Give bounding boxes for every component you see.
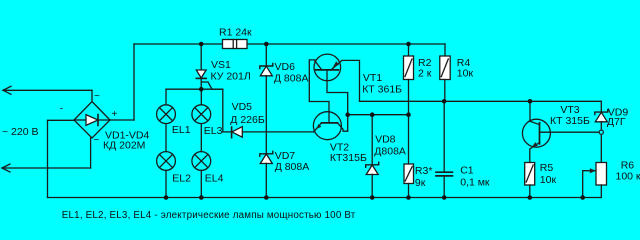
wire: bottom input line <box>2 167 91 169</box>
VD6 bar with hooks <box>260 64 273 69</box>
svg-text:+: + <box>112 109 118 120</box>
svg-text:C1: C1 <box>460 165 474 177</box>
svg-text:-: - <box>60 104 63 115</box>
transistor VT2 <box>313 112 341 140</box>
svg-text:0,1 мк: 0,1 мк <box>460 177 490 189</box>
resistor R5 <box>525 163 535 186</box>
wire: bridge minus to left vertical <box>48 119 75 121</box>
wire: EL3 column <box>200 89 202 105</box>
VD7 bar with hooks <box>260 151 273 156</box>
VD8 bar with hooks <box>366 162 379 167</box>
svg-text:VD8: VD8 <box>375 134 396 146</box>
svg-text:R1 24к: R1 24к <box>219 27 252 39</box>
resistor R2 <box>408 44 410 56</box>
svg-text:EL1, EL2, EL3, EL4 - электриче: EL1, EL2, EL3, EL4 - электрические лампы… <box>62 210 356 221</box>
svg-text:КТ315Б: КТ315Б <box>330 152 367 164</box>
svg-text:EL2: EL2 <box>172 172 191 184</box>
svg-text:100 к: 100 к <box>616 170 640 182</box>
VS1 gate wire <box>202 82 223 132</box>
svg-text:VT1: VT1 <box>363 72 382 84</box>
VS1 cathode bar <box>196 77 206 79</box>
VT1 collector diagonal and path to VT2 base <box>309 60 329 123</box>
svg-text:R3*: R3* <box>415 165 433 177</box>
wire: top rail left of R1 <box>134 43 223 45</box>
VT2 emitter arrow <box>317 124 322 129</box>
zener VD9 triangle <box>595 112 607 122</box>
wire: VD9 column from top wire <box>600 101 602 112</box>
wire: net y=114.7 <box>348 114 409 116</box>
svg-text:2 к: 2 к <box>418 67 432 79</box>
VD9 bar with hooks <box>595 110 608 115</box>
wire: stub to bridge top <box>91 90 93 101</box>
zener VD7 triangle <box>260 154 272 164</box>
svg-text:КТ 361Б: КТ 361Б <box>362 84 402 96</box>
bridge diode triangle <box>86 115 98 126</box>
resistor R3* <box>404 164 414 184</box>
svg-text:EL1: EL1 <box>172 124 191 136</box>
VT3 collector <box>540 131 602 133</box>
wire: VD8 column <box>371 115 373 165</box>
VT1 emitter diagonal <box>331 60 360 101</box>
wire: bridge plus to right <box>110 119 134 121</box>
bridge diode bar <box>97 115 99 126</box>
wire VD9 to junction <box>600 122 602 163</box>
svg-text:Д808А: Д808А <box>374 146 406 158</box>
bridge internal lead <box>74 119 86 121</box>
wire: vertical up to top rail <box>133 44 135 120</box>
zener VD8 triangle <box>366 165 378 175</box>
svg-text:EL4: EL4 <box>205 172 224 184</box>
bridge rectifier VD1-VD4 diamond <box>74 102 110 139</box>
transistor VT3 <box>522 119 550 147</box>
VT2 collector path <box>338 115 348 132</box>
svg-text:VS1: VS1 <box>211 59 231 71</box>
svg-text:КТ 315Б: КТ 315Б <box>550 115 590 127</box>
svg-text:КД 202М: КД 202М <box>103 140 145 152</box>
thyristor VS1 anode lead <box>200 44 202 70</box>
VD6 triangle <box>260 66 272 76</box>
svg-text:Д 808А: Д 808А <box>275 161 310 173</box>
svg-text:Д 226Б: Д 226Б <box>230 114 265 126</box>
svg-text:10к: 10к <box>457 67 474 79</box>
wire: lamps top <box>166 88 223 90</box>
wire VD8 to rail <box>371 174 373 197</box>
potentiometer R6 <box>596 163 607 186</box>
R6 wiper arrow <box>583 171 595 198</box>
VT1 base lead <box>327 70 348 115</box>
lamp EL2 <box>157 152 176 171</box>
wire: long net y=101.3 <box>360 100 602 102</box>
VS1 triangle <box>196 70 206 78</box>
lamp EL3 <box>192 105 211 124</box>
svg-text:VD6: VD6 <box>275 61 296 73</box>
wire: VD5 row <box>223 131 232 133</box>
svg-text:Д7Г: Д7Г <box>607 116 626 128</box>
svg-text:10к: 10к <box>540 174 557 186</box>
wire: bottom rail <box>48 197 602 199</box>
VS1 cathode lead <box>200 78 202 89</box>
diode VD5 triangle <box>232 127 242 138</box>
VD5 cathode bar <box>231 127 233 138</box>
resistor R4 <box>444 44 446 56</box>
lamp EL4 <box>192 152 211 171</box>
VT3 base lead <box>530 101 540 124</box>
VT3 emitter arrow <box>532 142 538 147</box>
svg-text:~: ~ <box>94 91 100 102</box>
resistor R1 body <box>223 40 248 49</box>
wire: VD7 to bottom rail <box>265 163 267 197</box>
zener VD6 column top <box>265 44 267 66</box>
lamp EL1 <box>157 105 176 124</box>
wire: VD6 to VD7 <box>265 76 267 154</box>
arrow left top <box>3 86 11 94</box>
svg-text:9к: 9к <box>415 177 426 189</box>
svg-text:EL3: EL3 <box>204 125 223 137</box>
svg-text:VD5: VD5 <box>232 101 253 113</box>
svg-text:КУ 201Л: КУ 201Л <box>211 70 251 82</box>
junction open circle VD9 / VT3 collector <box>599 130 603 134</box>
VT1 emitter arrow (PNP) <box>332 61 339 68</box>
transistor VT1 <box>314 54 341 81</box>
wire: EL1 column <box>165 89 167 105</box>
capacitor C1 <box>443 101 445 172</box>
resistor R3* top lead <box>408 115 410 164</box>
wire: top input line <box>3 89 92 91</box>
wire: top rail right of R1 <box>247 43 445 45</box>
VT3 emitter <box>530 143 540 163</box>
svg-text:~: ~ <box>94 135 100 146</box>
svg-text:~ 220 В: ~ 220 В <box>2 126 39 138</box>
arrow left bottom <box>2 164 10 172</box>
svg-text:VT3: VT3 <box>560 104 579 116</box>
svg-text:R5: R5 <box>540 162 554 174</box>
svg-text:Д 808А: Д 808А <box>274 73 309 85</box>
wire: stub bridge bottom <box>90 138 92 168</box>
VT2 emitter diagonal <box>314 123 322 132</box>
wire: left vertical down to bottom rail <box>47 120 49 197</box>
